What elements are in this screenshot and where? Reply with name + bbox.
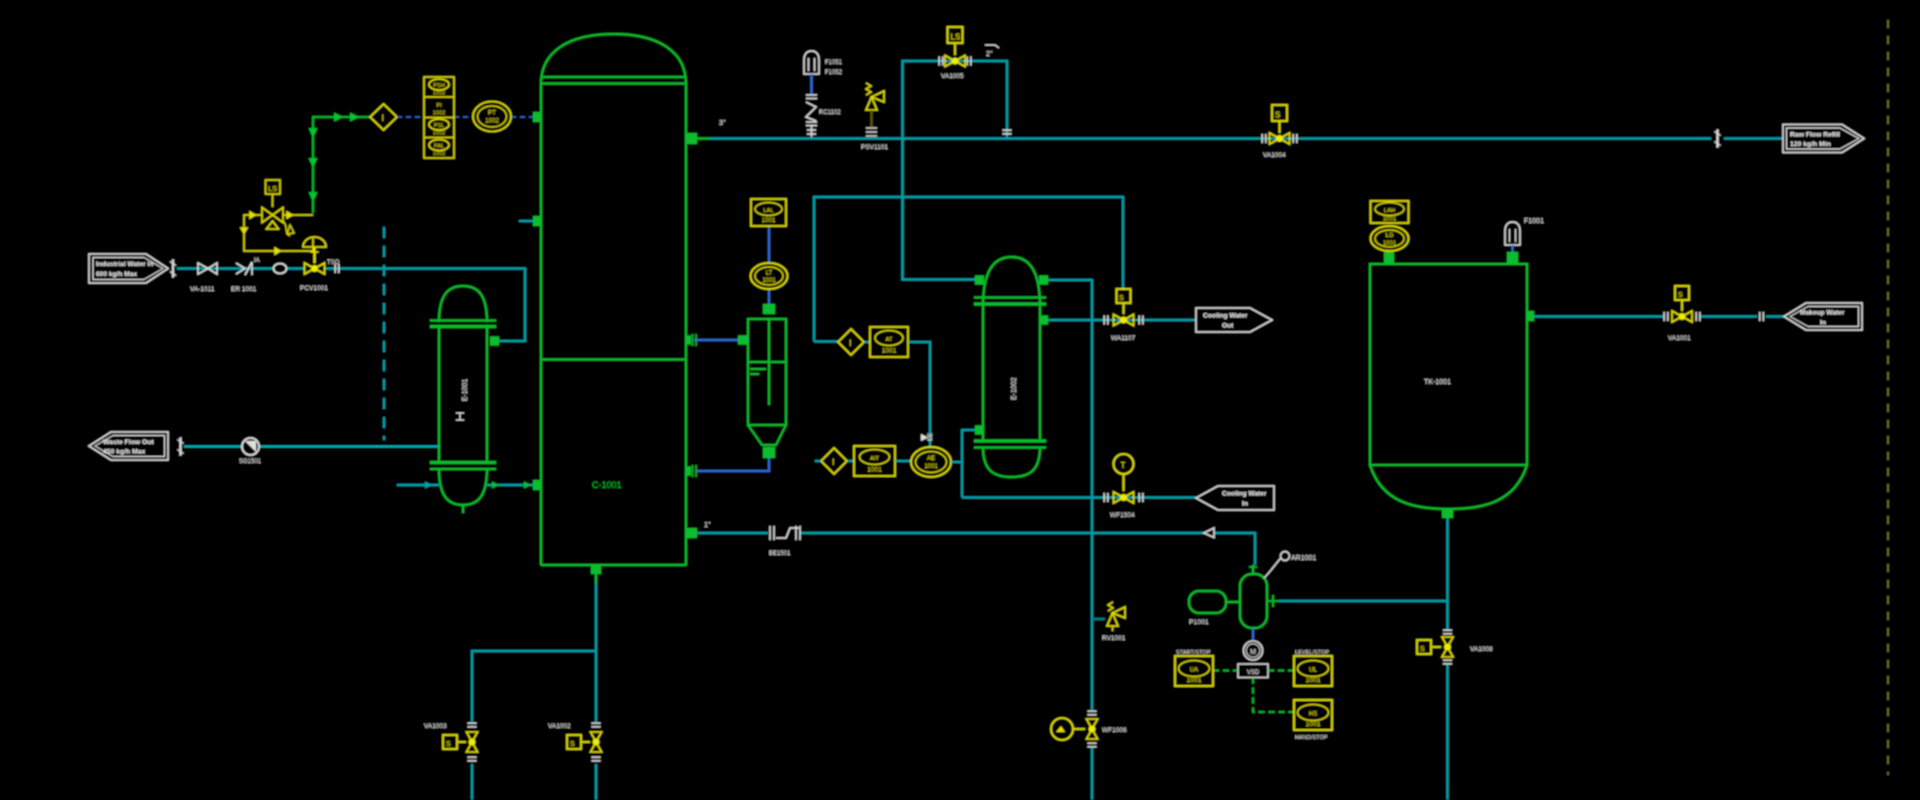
- spec break tick on makeup line: [1760, 312, 1764, 321]
- valve WF1006 (condensate drain) with DP gauge: [1051, 711, 1127, 747]
- svg-text:P1001: P1001: [1189, 619, 1209, 626]
- wire: corner to upper diamond: [814, 341, 838, 343]
- svg-text:T: T: [1121, 461, 1126, 470]
- alarm annunciator stack PSH/PSL 1002: [424, 77, 454, 158]
- valve VA1005 (bypass globe w/ solenoid): [939, 27, 971, 80]
- svg-text:Industrial Water In: Industrial Water In: [96, 261, 153, 268]
- wire: vapor feed to condenser E-1002: [903, 139, 976, 280]
- svg-text:S: S: [570, 741, 575, 748]
- wire: AT1001 to sample point: [908, 342, 930, 448]
- node: waste outlet off-page connector "Waste Flow Out": [89, 432, 168, 460]
- wire: E-1001 outlet to column N3: [487, 482, 533, 489]
- svg-text:1001: 1001: [762, 278, 776, 284]
- svg-text:1002: 1002: [433, 131, 445, 137]
- level transmitter LT 1001: [751, 263, 788, 289]
- exchanger E-1001 (feed preheater): [430, 286, 496, 513]
- valve VA1003: [424, 723, 478, 761]
- svg-text:2": 2": [986, 51, 993, 58]
- svg-text:WF1504: WF1504: [1110, 512, 1135, 519]
- svg-text:F1001: F1001: [1524, 218, 1544, 225]
- node: column nozzle N3 (feed inlet from E-1001): [533, 480, 541, 490]
- svg-text:VA-1011: VA-1011: [190, 286, 215, 293]
- svg-text:PAL: PAL: [434, 144, 444, 150]
- column C-1001: [541, 34, 686, 565]
- svg-text:RC1102: RC1102: [819, 110, 841, 116]
- svg-text:UL: UL: [1309, 668, 1317, 674]
- svg-text:1001: 1001: [1383, 217, 1397, 223]
- svg-text:VA1002: VA1002: [548, 723, 571, 730]
- instrument air loop tubing (yellow): [241, 212, 313, 254]
- node: bridle inlet nozzle: [738, 336, 747, 345]
- wire: condensate line from E-1002 to drain: [1048, 280, 1092, 800]
- svg-text:HS: HS: [1309, 712, 1317, 718]
- valve ER-1001 (check valve): [231, 262, 257, 293]
- solenoid box LS: [266, 180, 281, 194]
- svg-text:1002: 1002: [433, 151, 445, 157]
- svg-text:1002: 1002: [433, 91, 445, 97]
- wire: analyzer sample return loop: [814, 197, 1123, 341]
- svg-text:LAH: LAH: [1384, 208, 1395, 214]
- svg-text:PSV1101: PSV1101: [861, 144, 888, 151]
- valve VA1004 (overhead line block valve): [1262, 105, 1297, 159]
- node: bridle top nozzle: [763, 304, 775, 314]
- hand switch HS 1001 (HAND/STOP): [1294, 700, 1332, 741]
- flange tick on bypass return: [1003, 130, 1012, 134]
- analyzer transmitter AIT 1001: [854, 446, 895, 476]
- svg-text:Out: Out: [1222, 323, 1234, 330]
- transmitter PT 1002: [473, 102, 511, 132]
- wire: separator to tank drain header: [1279, 600, 1448, 602]
- svg-text:Makeup Water: Makeup Water: [1800, 310, 1845, 317]
- svg-text:I: I: [849, 338, 852, 348]
- svg-text:1002: 1002: [433, 111, 445, 117]
- wire: cooling water out line: [1048, 319, 1196, 321]
- svg-text:S: S: [1119, 295, 1124, 302]
- svg-text:1002: 1002: [485, 118, 499, 125]
- svg-text:IA: IA: [254, 258, 260, 264]
- valve WF1504 (cooling in globe) with TI: [1104, 454, 1143, 519]
- separator pot (AR1001 analyser pot): [1240, 565, 1279, 628]
- interlock diamond I: [370, 104, 397, 130]
- sample point marker EE: [921, 433, 934, 441]
- node: cooling water in connector: [1196, 486, 1274, 510]
- wire: feed line PCV1001 to corner at column: [325, 269, 525, 342]
- svg-text:120 kg/h Min: 120 kg/h Min: [1790, 141, 1831, 148]
- spec break near line end: [1715, 130, 1721, 148]
- signal wire (green) from PCV loop up to PT diamond: [310, 114, 370, 213]
- valve WA1107 (cooling out globe): [1104, 289, 1143, 342]
- svg-text:S: S: [446, 741, 451, 748]
- svg-text:S: S: [1275, 111, 1280, 120]
- node: column nozzle N5 (level bridle top): [686, 334, 696, 346]
- svg-text:F1052: F1052: [825, 70, 843, 76]
- node: feed inlet off-page connector "Industrial Water In": [89, 254, 168, 283]
- svg-text:ER 1001: ER 1001: [231, 286, 257, 293]
- node: column nozzle N2 (spare, capped stub): [519, 216, 541, 226]
- wire: waste flow line from E-1001 left: [184, 445, 439, 447]
- svg-text:F1051: F1051: [825, 60, 843, 66]
- white flange ticks after PCV: [335, 264, 339, 273]
- valve VA1002: [548, 723, 602, 761]
- svg-text:WA1107: WA1107: [1111, 335, 1136, 342]
- svg-text:Cooling Water: Cooling Water: [1222, 491, 1267, 498]
- node: bridle bottom nozzle: [763, 447, 775, 458]
- svg-text:LS: LS: [268, 184, 277, 193]
- svg-text:600 kg/h Max: 600 kg/h Max: [96, 271, 137, 278]
- svg-text:Raw Flow Refill: Raw Flow Refill: [1790, 132, 1840, 139]
- svg-text:PSH: PSH: [433, 83, 445, 89]
- reducer on draw line: [1204, 528, 1214, 538]
- svg-text:VA1003: VA1003: [424, 723, 447, 730]
- level alarm LAH 1001 on tank: [1371, 201, 1409, 223]
- svg-text:Waste Flow Out: Waste Flow Out: [103, 439, 154, 446]
- signal wire (blue dashed) diamond to alarm stack to PT1002 to column: [397, 116, 534, 118]
- svg-text:VSD: VSD: [1247, 670, 1260, 676]
- svg-text:EE: EE: [928, 433, 934, 441]
- svg-text:AR1001: AR1001: [1291, 555, 1316, 562]
- svg-text:AT: AT: [886, 337, 893, 343]
- spec break on waste line: [178, 438, 184, 456]
- svg-text:PSL: PSL: [434, 123, 445, 129]
- svg-text:VA1004: VA1004: [1263, 152, 1286, 159]
- node: column nozzle N7 (1" side draw): [686, 528, 697, 538]
- wire: cooling water in line: [962, 496, 1196, 498]
- level alarm LAL 1001: [751, 199, 786, 226]
- spec break on feed line: [170, 260, 176, 278]
- node: tank top nozzles: [1384, 252, 1534, 518]
- wire: battery-limit dashed line (cyan): [383, 227, 385, 440]
- node: overhead off-page connector "Raw Flow Refill": [1783, 125, 1864, 153]
- svg-text:1001: 1001: [762, 217, 776, 224]
- pump P1001: [1189, 591, 1240, 613]
- flame arrester vent F1001: [1505, 218, 1544, 252]
- level gauge LG 1001 on tank: [1371, 226, 1409, 251]
- svg-text:In: In: [1242, 501, 1248, 508]
- svg-text:E-1001: E-1001: [462, 379, 469, 402]
- svg-text:PI: PI: [436, 103, 442, 109]
- valve VA-1011 (gate): [190, 263, 217, 293]
- node: cooling water out connector: [1196, 308, 1272, 332]
- svg-text:I: I: [382, 113, 385, 123]
- svg-text:UA: UA: [1190, 668, 1198, 674]
- relief valve RV1001 on condensate riser: [1092, 602, 1126, 642]
- wire: AE to condensate riser: [951, 430, 975, 497]
- svg-text:START/STOP: START/STOP: [1176, 650, 1211, 656]
- node: column nozzle N1 (PT tap): [533, 112, 541, 122]
- svg-text:S: S: [1420, 646, 1425, 653]
- node: E-1001 top feed nozzle: [490, 337, 499, 346]
- svg-text:SG1501: SG1501: [239, 459, 262, 465]
- svg-text:BE1501: BE1501: [769, 551, 791, 557]
- svg-text:1001: 1001: [1305, 677, 1320, 684]
- svg-text:RV1001: RV1001: [1102, 635, 1126, 642]
- analyzer indicator AT 1001 (shared display box): [870, 327, 908, 357]
- wire: feed line to PCV1001: [177, 267, 304, 269]
- wire: AIT to AE: [895, 460, 911, 462]
- svg-text:1": 1": [704, 522, 711, 529]
- flow element BE1501: [769, 526, 800, 557]
- analyzer element AE 1001: [911, 447, 951, 477]
- node: makeup water off-page connector: [1784, 303, 1862, 330]
- svg-text:VA1001: VA1001: [1668, 335, 1691, 342]
- interlock diamond I (analyzer upper): [838, 329, 864, 355]
- tank TK-1001: [1370, 264, 1527, 509]
- node: column bottom nozzle N8: [591, 565, 601, 583]
- drawing zone border (dashed olive vertical): [1887, 20, 1889, 775]
- wire: column bottoms header: [472, 583, 596, 800]
- svg-text:I: I: [832, 457, 835, 467]
- svg-text:M: M: [1250, 649, 1256, 656]
- motor M with VSD: [1238, 628, 1268, 678]
- svg-text:WF1006: WF1006: [1102, 727, 1127, 734]
- wire: tank drain line: [1446, 518, 1448, 800]
- wire: E-1001 lower stub (spare): [397, 482, 439, 489]
- svg-text:VA1005: VA1005: [941, 73, 964, 80]
- svg-text:VA1008: VA1008: [1470, 646, 1493, 653]
- svg-text:1001: 1001: [1186, 677, 1201, 684]
- svg-text:LG: LG: [1385, 233, 1393, 239]
- valve VA1008 (tank drain): [1417, 630, 1493, 664]
- sight glass SG1501: [239, 438, 262, 465]
- control valve PCV1001 with actuator: [254, 237, 340, 292]
- valve VA1001 (makeup): [1664, 286, 1700, 342]
- svg-text:TK-1001: TK-1001: [1424, 379, 1451, 386]
- svg-text:1001: 1001: [1305, 721, 1320, 728]
- svg-text:LEVEL/STOP: LEVEL/STOP: [1295, 650, 1329, 656]
- svg-text:TSO: TSO: [327, 260, 340, 266]
- svg-text:LT: LT: [766, 271, 773, 277]
- svg-text:Cooling Water: Cooling Water: [1203, 313, 1248, 320]
- wire: diamond to AT1001: [864, 341, 870, 343]
- svg-text:C-1001: C-1001: [592, 480, 622, 490]
- relief device PSE with rupture disc F1051/F1052: [804, 51, 819, 137]
- svg-text:AIT: AIT: [870, 456, 879, 462]
- inline instrument (white circle): [274, 264, 287, 274]
- control station UA 1001 (START/STOP): [1175, 650, 1213, 686]
- status light UL 1001 (LEVEL/STOP): [1294, 650, 1332, 686]
- wire: bridle taps (blue) to column: [694, 226, 769, 471]
- level bridle pot (external chamber): [748, 319, 786, 445]
- svg-text:1001: 1001: [882, 348, 897, 355]
- node: column nozzle N4 (overhead vapor 3"): [686, 133, 710, 144]
- svg-text:PCV1001: PCV1001: [300, 285, 328, 292]
- interlock diamond I (analyzer lower): [815, 448, 854, 474]
- svg-text:LS: LS: [951, 33, 961, 42]
- wire: overhead vapor line 3": [710, 137, 1783, 139]
- solenoid 3-way valve on IA loop: [262, 194, 283, 229]
- svg-text:AE: AE: [927, 456, 935, 462]
- node: E-1002 nozzles: [975, 276, 1048, 435]
- relief valve PSV1101 (yellow angle valve): [861, 83, 888, 151]
- svg-text:In: In: [1820, 320, 1826, 327]
- wire: 1" bottoms draw line: [697, 533, 1255, 565]
- wire: hot bypass loop: [903, 61, 1008, 280]
- svg-text:450 kg/h Max: 450 kg/h Max: [103, 449, 146, 456]
- svg-text:1001: 1001: [867, 467, 882, 474]
- analyser tag AR1001: [1264, 552, 1316, 579]
- svg-text:HAND/STOP: HAND/STOP: [1295, 735, 1328, 741]
- svg-text:PT: PT: [488, 110, 496, 117]
- svg-text:1001: 1001: [1383, 241, 1397, 247]
- svg-text:E-1002: E-1002: [1011, 377, 1018, 400]
- small white vent valve on E-1001 body: [456, 413, 464, 420]
- condenser E-1002: [974, 257, 1046, 477]
- wire: makeup water line: [1534, 315, 1784, 317]
- node: column nozzle N6 (level bridle bottom return): [686, 465, 696, 477]
- svg-text:LAL: LAL: [763, 208, 774, 214]
- svg-text:1001: 1001: [924, 464, 938, 470]
- wire: motor control signals (green dashed): [1213, 671, 1294, 713]
- svg-text:3": 3": [719, 120, 726, 127]
- svg-text:S: S: [1678, 292, 1683, 299]
